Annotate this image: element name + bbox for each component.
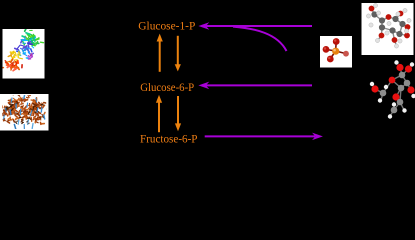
purple arrow from Fructose-6-P (to right): [205, 133, 322, 139]
protein image bottom-left (glucose-6-phosphate isomerase tetramer, white panel): [0, 94, 49, 131]
phosphate molecule (white panel, Pi ball-and-stick): [320, 36, 352, 68]
hydrogens: [373, 3, 377, 7]
purple arrow to Glucose-1-P (from right): [199, 23, 312, 29]
svg-text:Glucose-6-P: Glucose-6-P: [140, 82, 194, 94]
orange down arrow between G1P and G6P: [175, 36, 181, 72]
glucose-6-P molecule bottom-right (on black, ball-and-stick): [370, 60, 415, 118]
carbons (gray): [399, 72, 406, 79]
svg-text:Glucose-1-P: Glucose-1-P: [138, 20, 195, 32]
orange down arrow between G6P and F6P: [175, 96, 181, 131]
hydrogens (white): [394, 60, 398, 64]
orange up arrow between G1P and G6P: [157, 34, 163, 72]
protein image top-left (phosphoglucomutase ribbon, white panel): [0, 29, 45, 79]
svg-text:Fructose-6-P: Fructose-6-P: [140, 133, 198, 145]
purple curved branch to phosphate: [233, 27, 287, 51]
orange up arrow between G6P and F6P: [156, 95, 162, 132]
carbons: [371, 11, 377, 17]
glucose molecule top-right (white panel, ball-and-stick): [362, 3, 414, 55]
purple arrow to Glucose-6-P (from right): [199, 82, 312, 88]
oxygens: [369, 6, 375, 12]
oxygens (bright red): [396, 64, 403, 71]
